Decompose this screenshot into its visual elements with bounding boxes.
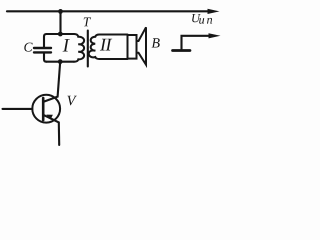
wire from top rail down to LC tank [59,11,61,34]
wire winding II bottom lead to speaker [100,58,128,60]
wire top supply rail [7,10,211,12]
supply terminal arrow (lower) [182,36,212,49]
transistor V base lead [3,108,33,110]
wire LC tank top rail [47,33,75,35]
capacitor C top lead [44,34,47,47]
wire LC tank bottom rail [47,61,75,63]
speaker B body rectangle [128,35,137,59]
junction dot top rail [58,9,63,14]
transformer winding II [89,35,100,60]
transistor V collector wire [43,62,60,102]
transformer core [87,31,89,67]
junction dot LC top node [58,32,63,37]
transistor V circle [32,95,60,123]
wire winding II top lead to speaker [100,33,128,35]
transistor V emitter arrow (PNP) [46,115,53,120]
capacitor C plates [34,47,51,49]
speaker B horn [137,27,147,64]
capacitor C bottom lead [44,54,47,62]
transformer winding I [74,34,84,62]
label C (capacitor) [24,43,32,52]
arrowhead supply lower arrow [209,33,221,38]
label Uип (supply voltage) [192,14,201,22]
supply terminal foot bar [173,49,191,52]
label V (transistor) [67,96,77,106]
label B (speaker) [152,38,160,47]
transistor V emitter wire [44,115,60,145]
label T (transformer) [84,18,91,27]
label I (primary winding) [63,39,70,51]
label II (secondary winding) [100,39,112,51]
transistor V base bar [42,98,45,120]
junction dot LC bottom node [58,59,63,64]
wire arrowhead top rail [208,9,220,14]
